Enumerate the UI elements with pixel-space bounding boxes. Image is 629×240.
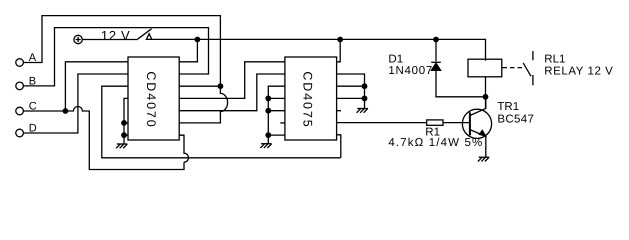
svg-text:CD4075: CD4075: [300, 71, 314, 128]
transistor emitter arrow: [478, 129, 487, 137]
wire C continues with hop over D riser: [65, 107, 184, 170]
node dot 12V rail 1: [195, 37, 201, 43]
wire stub left pin7: [124, 134, 128, 136]
relay contact blade: [523, 63, 531, 76]
svg-text:CD4070: CD4070: [144, 71, 158, 128]
wire C to junction: [23, 110, 65, 112]
svg-text:RL1: RL1: [544, 53, 565, 65]
node dot right pin4: [362, 96, 368, 102]
svg-text:RELAY 12 V: RELAY 12 V: [544, 66, 613, 78]
svg-text:12 V: 12 V: [101, 28, 131, 43]
wire stub 4075 right pin5 unconnected: [337, 110, 341, 112]
node dot 4075 left pin5: [265, 108, 271, 114]
wire CD4070 right pin4 to CD4075 pin1: [179, 62, 285, 99]
IC U1 CD4070 box: [128, 57, 179, 140]
wire stub 4075 left pin4: [268, 97, 285, 99]
wire CD4075 right pin2 down: [337, 74, 365, 98]
input terminal B: [16, 82, 24, 90]
relay contact dashed link: [503, 67, 524, 69]
wire stub 4075 left pin6 unconnected: [280, 122, 285, 124]
wire to ground under 4075 right: [364, 98, 366, 108]
node C junction dot: [63, 108, 69, 114]
wire A to CD4070: [23, 16, 220, 86]
wire CD4070 right pin7 stub: [179, 134, 184, 136]
transistor emitter: [470, 130, 486, 137]
relay contact bottom: [532, 75, 534, 85]
wire CD4075 right pin1 to 12V: [337, 40, 341, 62]
transistor Q1 BC547 circle: [462, 109, 491, 138]
node dot diode bottom: [483, 94, 489, 100]
ground under CD4075 right: [357, 109, 368, 113]
node A junction dot: [218, 83, 224, 89]
wire B to CD4070 pin: [23, 28, 208, 86]
wire CD4075 right pin7 to ground rail: [337, 135, 341, 158]
diode D1: [435, 40, 437, 62]
wire relay bottom: [485, 77, 487, 109]
wire D up to CD4070 pin 2: [23, 74, 128, 133]
svg-text:A: A: [29, 52, 37, 64]
transistor collector: [470, 97, 486, 116]
wire stub left pin6: [124, 122, 128, 124]
wire CD4075 left commoning: [268, 86, 285, 144]
resistor R1 wire from CD4075: [337, 122, 427, 124]
svg-text:D1: D1: [388, 54, 403, 66]
ground under CD4070: [116, 144, 127, 148]
ground under transistor: [478, 157, 489, 161]
svg-text:BC547: BC547: [497, 113, 534, 125]
input terminal A: [16, 59, 24, 67]
relay contact top: [532, 51, 534, 60]
wire emitter to ground: [485, 136, 487, 157]
wire CD4075 right pin4: [337, 97, 365, 99]
node dot left pin7: [121, 132, 127, 138]
wire CD4070 right pin5 to CD4075 pin2: [179, 74, 285, 111]
wire C up to CD4070 pin 1: [65, 62, 128, 111]
wire CD4070 left pin3 to ground rail: [102, 86, 341, 158]
ground under CD4075 left: [260, 144, 271, 148]
switch S1 blade: [137, 29, 151, 40]
wire CD4070 right pin1 to 12V: [179, 40, 197, 62]
node dot left pin6: [121, 120, 127, 126]
svg-text:D: D: [29, 123, 37, 135]
node dot right pin3: [362, 83, 368, 89]
svg-text:4.7kΩ 1/4W 5%: 4.7kΩ 1/4W 5%: [388, 137, 483, 149]
node dot 4075 left pin7: [265, 132, 271, 138]
node dot 12V rail 3: [433, 37, 439, 43]
input terminal D: [16, 129, 24, 137]
resistor R1 body: [427, 120, 443, 125]
relay RL1 coil box: [468, 59, 502, 77]
power terminal 12V: [74, 35, 82, 43]
wire A branch down with hop: [179, 86, 227, 123]
node dot 12V rail 2: [337, 37, 343, 43]
IC U2 CD4075 box: [285, 57, 337, 140]
svg-text:C: C: [29, 101, 37, 113]
wire stub 4075 left pin5: [268, 110, 285, 112]
wire CD4070 left commoning: [124, 98, 128, 144]
svg-text:TR1: TR1: [497, 101, 519, 113]
svg-text:1N4007: 1N4007: [388, 65, 433, 77]
input terminal C: [16, 107, 24, 115]
svg-text:B: B: [29, 76, 36, 88]
wire R1 to base: [443, 122, 470, 124]
node dot 4075 left pin4: [265, 96, 271, 102]
wire stub 4075 left pin7: [268, 134, 285, 136]
transistor base bar: [469, 112, 471, 135]
wire CD4070 right pin3 to node A: [179, 85, 220, 87]
switch S1 triangle: [146, 34, 151, 40]
wire CD4075 right pin3: [337, 85, 365, 87]
hop of C rail over ground rail: [179, 135, 188, 162]
wire 12V rail: [83, 39, 486, 60]
